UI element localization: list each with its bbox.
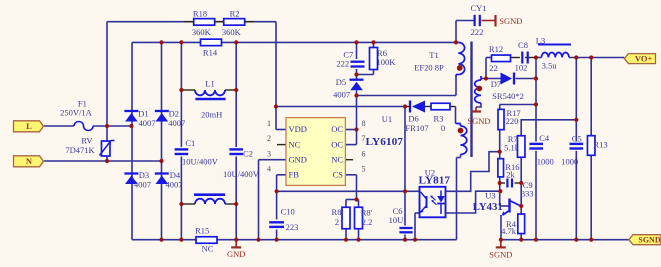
svg-text:2: 2	[267, 134, 271, 143]
svg-text:4007: 4007	[139, 118, 156, 128]
svg-text:C5: C5	[572, 133, 582, 143]
svg-text:250V/1A: 250V/1A	[60, 107, 93, 117]
svg-text:R2: R2	[230, 8, 240, 18]
svg-text:1000: 1000	[561, 157, 578, 167]
svg-text:1: 1	[267, 119, 271, 128]
svg-text:222: 222	[336, 59, 349, 69]
svg-text:4007: 4007	[168, 118, 185, 128]
svg-text:VO+: VO+	[635, 53, 653, 63]
svg-text:T1: T1	[429, 50, 438, 60]
svg-text:C4: C4	[539, 133, 550, 143]
svg-text:2: 2	[335, 217, 339, 227]
svg-text:333: 333	[521, 188, 534, 198]
svg-text:R8: R8	[332, 207, 342, 217]
svg-text:10U/400V: 10U/400V	[182, 157, 219, 167]
svg-text:SR540*2: SR540*2	[492, 91, 524, 101]
svg-text:U3: U3	[485, 190, 495, 200]
svg-text:FB: FB	[289, 170, 300, 180]
svg-text:SGND: SGND	[467, 116, 490, 126]
svg-text:0: 0	[441, 123, 445, 133]
svg-text:R14: R14	[203, 47, 218, 57]
svg-text:4.7k: 4.7k	[501, 226, 517, 236]
svg-text:D1: D1	[138, 108, 148, 118]
svg-text:5: 5	[362, 164, 366, 173]
svg-text:FR107: FR107	[405, 123, 428, 133]
svg-text:L: L	[26, 121, 32, 131]
svg-text:D7: D7	[491, 79, 501, 89]
svg-text:R13: R13	[593, 140, 607, 150]
svg-text:LY6107: LY6107	[366, 136, 404, 148]
svg-text:2k: 2k	[506, 170, 515, 180]
svg-text:SGND: SGND	[638, 236, 660, 245]
svg-text:N: N	[26, 156, 33, 166]
svg-text:LY431: LY431	[473, 201, 503, 213]
svg-text:R12: R12	[489, 44, 503, 54]
svg-text:D5: D5	[336, 77, 346, 87]
svg-text:10U: 10U	[389, 215, 404, 225]
svg-text:4007: 4007	[333, 90, 350, 100]
svg-text:222: 222	[471, 27, 484, 37]
svg-text:3: 3	[267, 149, 271, 158]
svg-text:C10: C10	[281, 207, 295, 217]
svg-text:8: 8	[362, 119, 366, 128]
svg-text:C1: C1	[185, 138, 195, 148]
svg-text:L3: L3	[536, 36, 545, 46]
svg-text:R15: R15	[195, 225, 209, 235]
svg-text:R8': R8'	[361, 208, 373, 218]
svg-text:6: 6	[362, 149, 366, 158]
svg-text:100K: 100K	[377, 57, 397, 67]
svg-text:20mH: 20mH	[201, 109, 222, 119]
svg-text:EF20 8P: EF20 8P	[414, 62, 444, 72]
svg-text:GND: GND	[227, 249, 245, 259]
svg-text:220: 220	[506, 116, 519, 126]
svg-text:360K: 360K	[222, 27, 242, 37]
svg-text:22: 22	[489, 63, 498, 73]
svg-text:NC: NC	[289, 139, 301, 149]
svg-text:C8: C8	[518, 40, 528, 50]
svg-text:LY817: LY817	[419, 175, 451, 187]
svg-text:4: 4	[267, 164, 271, 173]
svg-text:2.2: 2.2	[362, 217, 373, 227]
svg-text:4007: 4007	[166, 180, 183, 190]
svg-text:SGND: SGND	[499, 16, 522, 26]
svg-text:VDD: VDD	[289, 124, 307, 134]
svg-text:OC: OC	[331, 124, 343, 134]
svg-text:D2: D2	[169, 108, 179, 118]
svg-text:OC: OC	[331, 139, 343, 149]
svg-text:4007: 4007	[134, 180, 151, 190]
svg-text:223: 223	[286, 222, 299, 232]
svg-text:U1: U1	[382, 114, 392, 124]
svg-text:R18: R18	[193, 8, 207, 18]
svg-text:CY1: CY1	[470, 3, 486, 13]
svg-text:7D471K: 7D471K	[65, 145, 95, 155]
svg-text:NC: NC	[202, 244, 214, 254]
svg-text:NC: NC	[331, 154, 343, 164]
svg-text:SGND: SGND	[489, 250, 512, 260]
svg-text:C2: C2	[243, 149, 253, 159]
svg-text:5.1k: 5.1k	[504, 143, 520, 153]
svg-text:360K: 360K	[192, 27, 212, 37]
svg-text:L1: L1	[205, 79, 214, 89]
svg-text:1000: 1000	[537, 157, 554, 167]
svg-text:102: 102	[515, 63, 528, 73]
svg-text:10U/400V: 10U/400V	[223, 169, 260, 179]
svg-text:GND: GND	[289, 154, 307, 164]
svg-text:3.5u: 3.5u	[542, 61, 558, 71]
svg-text:CS: CS	[333, 170, 344, 180]
